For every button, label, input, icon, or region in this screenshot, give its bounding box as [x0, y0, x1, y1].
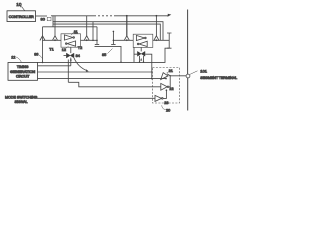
switch S4 [154, 36, 159, 41]
label 86 [34, 53, 42, 59]
buffer box cell2 [133, 34, 153, 47]
wire 22 output [169, 76, 170, 87]
label 85 [102, 49, 113, 58]
wire drop x93 [92, 22, 94, 41]
terminal cap A [95, 27, 99, 45]
svg-text:20: 20 [166, 108, 170, 112]
buffer 21 [161, 73, 168, 80]
wire controller output [36, 15, 48, 17]
wire timing out 2 [38, 71, 152, 73]
svg-text:84: 84 [76, 54, 80, 58]
wire bus line 2 [53, 22, 163, 41]
wire timing out 1 [38, 65, 71, 67]
leader 101 [190, 71, 198, 75]
svg-text:T2: T2 [78, 46, 82, 50]
buffer box cell1 [61, 34, 81, 47]
bus marker 80 [47, 17, 51, 20]
svg-text:12: 12 [62, 48, 66, 52]
timing generation circuit box [8, 63, 38, 81]
svg-text:TIMING: TIMING [17, 65, 29, 69]
transfer gate 84 cell1 [64, 47, 75, 58]
buffer 11 [64, 35, 72, 40]
mode switching signal text [5, 96, 38, 104]
switch S1 stub [54, 16, 56, 36]
buffer 23 [155, 95, 162, 101]
controller U10 [7, 11, 36, 22]
svg-text:T1: T1 [49, 47, 53, 51]
svg-text:CIRCUIT: CIRCUIT [16, 75, 29, 79]
switch S1 [52, 36, 57, 41]
wire 21 output [167, 74, 186, 76]
svg-text:12: 12 [11, 56, 15, 60]
output block 20 dashed box [153, 68, 180, 104]
wire mode switching [37, 97, 155, 99]
wire cell1 left drop [42, 27, 44, 63]
svg-text:86: 86 [34, 53, 38, 57]
wire gate ctl [70, 58, 72, 66]
transfer gate cell2 [137, 47, 145, 56]
wire timing out 3 [38, 78, 167, 80]
label 12 timing [11, 56, 21, 63]
wire fanout [52, 16, 54, 27]
switch S2 stub [86, 16, 88, 36]
wire bus line 3 [53, 24, 160, 40]
I-beam terminal [167, 33, 172, 48]
switch S3 [124, 36, 129, 41]
svg-text:85: 85 [102, 53, 106, 57]
svg-text:21: 21 [169, 69, 173, 73]
wire top bus line [51, 15, 94, 17]
svg-text:SEGMENT TERMINAL: SEGMENT TERMINAL [200, 76, 237, 80]
svg-text:10: 10 [16, 2, 22, 7]
arrowhead top line [168, 14, 172, 17]
wire net 86 bottom [38, 48, 170, 62]
wire cell1 down left [67, 60, 69, 83]
buffer 12 [67, 41, 76, 46]
buffer cell2 top [136, 35, 144, 40]
node on top line [156, 15, 158, 17]
svg-text:22: 22 [169, 87, 173, 91]
label 20 [162, 105, 170, 112]
svg-text:11: 11 [74, 30, 78, 34]
terminal cap B [111, 31, 115, 44]
terminal circle 101 [186, 74, 190, 78]
label 10 [16, 2, 24, 10]
svg-text:SIGNAL: SIGNAL [15, 100, 28, 104]
switch S0 [40, 36, 45, 41]
svg-text:23: 23 [164, 101, 168, 105]
svg-text:101: 101 [200, 68, 207, 73]
wire cell2 node line [114, 39, 134, 41]
wire gate cell2 sides [134, 54, 152, 78]
wire box drop x134 [133, 47, 135, 62]
label 11 [71, 30, 78, 35]
node on top line [126, 15, 128, 17]
label 12 [62, 46, 69, 52]
wire gate hook [74, 58, 87, 71]
buffer 22 [161, 83, 167, 90]
label 21 [167, 69, 173, 73]
svg-text:80: 80 [41, 17, 46, 22]
wire bus line 4 / cell1 rail [43, 26, 98, 28]
wire drop cell2 right [155, 16, 157, 36]
wire cell1 node line [43, 39, 62, 41]
segment terminal line [187, 10, 189, 111]
svg-text:CONTROLLER: CONTROLLER [9, 15, 35, 19]
wire thick drop cell2 left [126, 16, 128, 36]
wires gate cell2 down [140, 56, 144, 62]
switch S2 [84, 36, 89, 41]
buffer cell2 bottom [139, 41, 147, 46]
wire 23 output [163, 90, 166, 98]
svg-text:GENERATION: GENERATION [10, 70, 36, 74]
wire cell1 ctl long [68, 82, 161, 87]
wire 85 net [95, 46, 122, 62]
